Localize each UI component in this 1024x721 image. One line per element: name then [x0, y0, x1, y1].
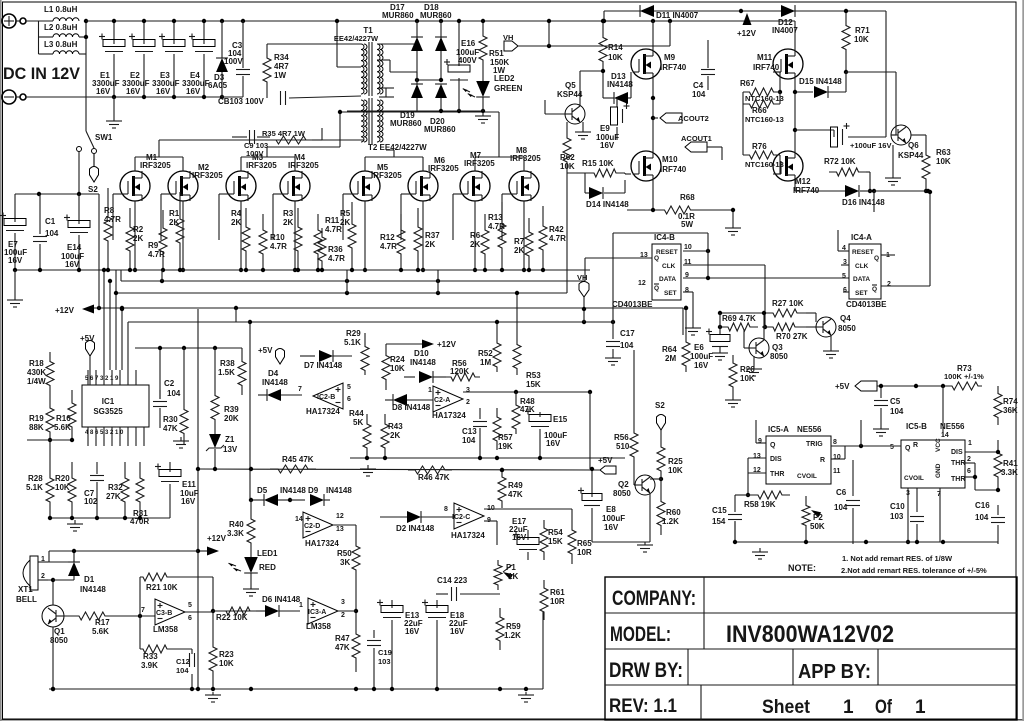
diode D12 [781, 5, 795, 17]
wire IC4-B data [683, 277, 849, 279]
svg-text:SW1: SW1 [95, 133, 113, 142]
svg-text:THR: THR [951, 460, 965, 467]
resistor R6 [481, 214, 489, 270]
svg-text:MODEL:: MODEL: [610, 623, 671, 646]
svg-text:R18: R18 [29, 359, 44, 368]
wire T cross [379, 87, 394, 89]
diode D5 [264, 494, 278, 506]
transistor M2 IRF3205 [168, 171, 198, 201]
svg-text:Z1: Z1 [225, 435, 235, 444]
svg-text:1: 1 [843, 697, 854, 718]
ground Q5 [582, 122, 584, 126]
svg-text:P1: P1 [506, 563, 516, 572]
capacitor E10 [831, 127, 838, 147]
resistor R8 [104, 188, 112, 270]
svg-text:SET: SET [855, 290, 868, 297]
svg-text:2K: 2K [470, 240, 480, 249]
svg-text:5: 5 [842, 273, 846, 280]
title block col lines [703, 577, 705, 649]
wire IC5A left [756, 442, 766, 444]
svg-text:16V: 16V [96, 87, 111, 96]
resistor R71 [845, 11, 847, 15]
svg-text:+12V: +12V [55, 306, 75, 315]
capacitor C14 [436, 593, 448, 595]
svg-text:E9: E9 [600, 124, 610, 133]
capacitor C3 [242, 21, 244, 68]
capacitor E18 [436, 600, 438, 608]
svg-text:103: 103 [378, 657, 391, 666]
svg-text:D5: D5 [257, 486, 268, 495]
svg-text:1.2K: 1.2K [504, 631, 521, 640]
svg-text:IRF3205: IRF3205 [371, 171, 402, 180]
svg-text:C13: C13 [462, 427, 477, 436]
wire R25 Q2 [660, 480, 662, 492]
svg-text:104: 104 [176, 666, 189, 675]
ground mid rail [367, 465, 369, 469]
svg-text:10: 10 [833, 454, 841, 461]
svg-text:MUR860: MUR860 [390, 119, 422, 128]
svg-text:R52: R52 [478, 349, 493, 358]
svg-text:L3 0.8uH: L3 0.8uH [44, 40, 78, 49]
wire P2 wiper [805, 535, 807, 542]
svg-text:4.7R: 4.7R [380, 242, 397, 251]
svg-text:R69 4.7K: R69 4.7K [722, 314, 756, 323]
resistor R40 [250, 500, 252, 510]
svg-text:CLK: CLK [662, 263, 676, 270]
svg-text:R32: R32 [108, 483, 123, 492]
wire +12V bus [88, 307, 683, 309]
svg-text:LED2: LED2 [494, 74, 515, 83]
wire E rail bottom [15, 269, 104, 271]
svg-text:IN4148: IN4148 [607, 80, 633, 89]
diode D2 [407, 511, 421, 523]
svg-text:D2 IN4148: D2 IN4148 [396, 524, 435, 533]
svg-text:R27 10K: R27 10K [772, 299, 804, 308]
wire drain to T2 [393, 149, 395, 151]
svg-text:10K: 10K [560, 162, 575, 171]
wire M sources [134, 201, 136, 270]
capacitor C16 [997, 505, 999, 515]
diode D8 [393, 394, 407, 406]
svg-text:R56: R56 [614, 433, 629, 442]
svg-text:VH: VH [503, 33, 513, 42]
transistor Q1 8050 [42, 605, 64, 627]
svg-text:IC2-C: IC2-C [452, 514, 470, 521]
svg-text:GND: GND [935, 463, 942, 478]
resistor R24 [382, 345, 390, 390]
svg-text:R28: R28 [28, 474, 43, 483]
svg-text:19K: 19K [498, 442, 513, 451]
svg-text:C19: C19 [378, 648, 392, 657]
resistor R4 [242, 208, 250, 270]
capacitor C9 [249, 130, 251, 144]
svg-text:120K: 120K [450, 367, 469, 376]
wire M gates [113, 193, 122, 195]
transistor M9 IRF740 [631, 49, 661, 79]
resistor R36 [318, 228, 326, 270]
svg-text:2: 2 [967, 456, 971, 463]
svg-text:R11: R11 [325, 216, 340, 225]
svg-text:2: 2 [341, 612, 345, 619]
svg-text:R54: R54 [548, 528, 563, 537]
svg-text:S2: S2 [655, 401, 665, 410]
resistor R43 [381, 414, 389, 458]
resistor R52 [493, 338, 501, 372]
capacitor E13 [391, 600, 393, 608]
svg-text:16V: 16V [450, 627, 465, 636]
svg-text:TRIG: TRIG [806, 441, 823, 448]
svg-text:R34: R34 [274, 53, 289, 62]
svg-text:1: 1 [299, 602, 303, 609]
svg-text:+5V: +5V [598, 456, 613, 465]
wire IC2A out [463, 391, 590, 393]
svg-text:LM358: LM358 [153, 625, 178, 634]
svg-text:5K: 5K [353, 418, 363, 427]
resistor R32 [121, 462, 129, 518]
capacitor E6 [710, 335, 730, 342]
ground C5 [880, 425, 882, 429]
ground bottom rail [525, 692, 527, 695]
svg-text:P2: P2 [813, 513, 823, 522]
resistor R45 [270, 465, 316, 473]
transistor M4 IRF3205 [280, 171, 310, 201]
capacitor C1 [39, 194, 41, 234]
svg-text:D14 IN4148: D14 IN4148 [586, 200, 629, 209]
svg-text:7: 7 [298, 386, 302, 393]
svg-text:R44: R44 [349, 409, 364, 418]
svg-text:R22 10K: R22 10K [216, 613, 248, 622]
svg-text:R35 4R7 1W: R35 4R7 1W [262, 129, 306, 138]
resistor R23 [209, 640, 217, 678]
ground E7 [14, 270, 16, 294]
svg-text:C6: C6 [836, 488, 847, 497]
resistor R61 [540, 580, 548, 620]
svg-text:R4: R4 [231, 209, 242, 218]
svg-text:Q: Q [872, 286, 877, 293]
net +5V oval [86, 341, 95, 357]
svg-text:IC1: IC1 [102, 397, 115, 406]
diode D17 [416, 21, 418, 38]
svg-text:E6: E6 [694, 343, 704, 352]
wire IC2C out [484, 508, 572, 510]
terminal J- (DC-) [2, 90, 16, 104]
svg-text:5W: 5W [681, 220, 693, 229]
svg-text:D1: D1 [84, 575, 95, 584]
svg-text:IN4148: IN4148 [280, 486, 306, 495]
wire bus2 [121, 280, 585, 282]
svg-text:C4: C4 [693, 81, 704, 90]
svg-text:10K: 10K [55, 483, 70, 492]
wire SW1 contact drop [78, 152, 80, 194]
svg-text:C12: C12 [176, 657, 190, 666]
svg-text:C1: C1 [45, 217, 56, 226]
svg-text:5.6K: 5.6K [54, 423, 71, 432]
resistor R17 [64, 612, 120, 620]
junction neg rail dots [112, 95, 116, 99]
svg-text:NTC160-13: NTC160-13 [745, 115, 784, 124]
ground IC1 [74, 520, 76, 524]
svg-text:+12V: +12V [207, 534, 227, 543]
svg-text:2K: 2K [231, 218, 241, 227]
resistor R63 [925, 135, 927, 143]
svg-text:15K: 15K [548, 537, 563, 546]
transistor Q4 8050 [816, 317, 836, 337]
svg-text:RESET: RESET [656, 249, 678, 256]
svg-text:R36: R36 [328, 245, 343, 254]
svg-text:10R: 10R [550, 597, 565, 606]
svg-text:4.7R: 4.7R [104, 215, 121, 224]
wire M11-M12 [794, 79, 796, 151]
svg-text:10K: 10K [854, 35, 869, 44]
wire IC5B vcc [942, 386, 944, 436]
diode D11 [640, 5, 654, 17]
resistor R2 [126, 208, 134, 270]
svg-text:27K: 27K [106, 492, 121, 501]
svg-text:R60: R60 [666, 508, 681, 517]
svg-text:16V: 16V [604, 523, 619, 532]
svg-text:4.7R: 4.7R [488, 222, 505, 231]
svg-text:R25: R25 [668, 457, 683, 466]
wire M bank drains [134, 157, 136, 171]
svg-text:R66: R66 [752, 106, 767, 115]
svg-text:D9: D9 [308, 486, 319, 495]
resistor R21 [140, 573, 170, 581]
svg-text:DATA: DATA [853, 276, 870, 283]
wire R52 tops [496, 322, 498, 338]
svg-text:8: 8 [833, 439, 837, 446]
wire bot rail right [735, 541, 998, 543]
svg-text:8050: 8050 [838, 324, 856, 333]
op-amp IC2-D [303, 512, 333, 538]
capacitor E1 [113, 21, 115, 44]
svg-text:+5V: +5V [258, 346, 273, 355]
svg-text:M12: M12 [795, 177, 811, 186]
zener Z1 [214, 430, 216, 434]
wire IC4-A clk [841, 264, 849, 266]
svg-text:1: 1 [428, 387, 432, 394]
wire IC1 top pins [87, 370, 89, 385]
ground R26 [732, 397, 734, 400]
capacitor E4 [203, 21, 205, 44]
diode D1 [73, 560, 75, 562]
svg-text:1K: 1K [508, 572, 518, 581]
svg-text:LED1: LED1 [257, 549, 278, 558]
svg-text:D6 IN4148: D6 IN4148 [262, 595, 301, 604]
svg-text:NE556: NE556 [940, 422, 965, 431]
svg-text:D8 IN4148: D8 IN4148 [392, 403, 431, 412]
transistor M3 IRF3205 [226, 171, 256, 201]
resistor R12 [397, 214, 405, 270]
resistor R48 [512, 400, 520, 434]
wire bus5 [250, 321, 613, 323]
resistor R11 [314, 214, 322, 270]
junction resistor rail dots [106, 268, 110, 272]
wire left rail mid [27, 439, 50, 441]
transistor Q2 8050 [635, 475, 655, 495]
wire IC4-B q [585, 257, 652, 259]
ground LED2 [482, 112, 484, 116]
svg-text:Q: Q [905, 445, 911, 452]
svg-text:R64: R64 [662, 345, 677, 354]
svg-text:3: 3 [466, 387, 470, 394]
svg-text:HA17324: HA17324 [305, 539, 339, 548]
svg-text:5.6K: 5.6K [92, 627, 109, 636]
potentiometer P2 [802, 496, 810, 535]
svg-text:R1: R1 [169, 209, 180, 218]
svg-text:IC4-B: IC4-B [654, 233, 675, 242]
svg-text:12: 12 [638, 280, 646, 287]
svg-text:DIS: DIS [951, 449, 963, 456]
capacitor E17 [527, 530, 529, 540]
svg-text:R: R [820, 457, 825, 464]
resistor R56b [446, 373, 480, 381]
wire XT1 net [48, 561, 74, 563]
wire R45 line [198, 469, 600, 470]
svg-text:HA17324: HA17324 [306, 407, 340, 416]
svg-text:R3: R3 [283, 209, 294, 218]
svg-text:E14: E14 [67, 243, 82, 252]
svg-text:5: 5 [890, 444, 894, 451]
resistor R69 [720, 323, 758, 331]
ground C2R30 [180, 437, 182, 441]
svg-text:100V: 100V [224, 57, 243, 66]
svg-text:400V: 400V [458, 56, 477, 65]
wire bus3 [116, 292, 567, 294]
ground bot right [759, 548, 761, 552]
svg-text:4.7R: 4.7R [270, 242, 287, 251]
svg-text:C14 223: C14 223 [437, 576, 468, 585]
junction top rail dots [112, 19, 116, 23]
svg-text:3.3K: 3.3K [227, 529, 244, 538]
svg-text:104: 104 [692, 90, 706, 99]
svg-text:430K: 430K [27, 368, 46, 377]
arrow +12V top [743, 13, 752, 25]
wire R71 bot [845, 60, 847, 72]
svg-text:R61: R61 [550, 588, 565, 597]
resistor R30 [180, 398, 188, 445]
svg-text:+12V: +12V [737, 29, 757, 38]
svg-text:4.7R: 4.7R [328, 254, 345, 263]
svg-text:IRF740: IRF740 [660, 63, 687, 72]
capacitor E7b [14, 194, 16, 222]
svg-text:5: 5 [347, 384, 351, 391]
svg-text:L1 0.8uH: L1 0.8uH [44, 5, 78, 14]
svg-text:2K: 2K [169, 218, 179, 227]
capacitor E11 [169, 462, 171, 472]
net flag ACOUT2 [653, 117, 658, 119]
resistor R47 [352, 620, 360, 672]
resistor R13 [498, 202, 506, 270]
svg-text:XT1: XT1 [18, 585, 33, 594]
wire IC4-B clk [683, 264, 765, 266]
capacitor C6 [852, 460, 854, 496]
inductor L3 [39, 53, 54, 55]
svg-text:KSP44: KSP44 [557, 90, 583, 99]
svg-text:IN4007: IN4007 [772, 26, 798, 35]
svg-text:Q5: Q5 [565, 81, 576, 90]
svg-text:SET: SET [664, 290, 677, 297]
net S2b [657, 415, 666, 431]
svg-text:EE42/4227W: EE42/4227W [334, 34, 379, 43]
svg-text:R9: R9 [148, 241, 159, 250]
resistor R27 [720, 312, 764, 314]
svg-text:2: 2 [41, 573, 45, 580]
svg-text:R5: R5 [340, 209, 351, 218]
svg-text:47K: 47K [508, 490, 523, 499]
resistor R1 [176, 192, 184, 270]
wire IC4-A q1 [881, 254, 895, 256]
LED LED2 [482, 68, 484, 82]
diode D13 [602, 71, 604, 98]
svg-text:13V: 13V [223, 445, 238, 454]
svg-text:2K: 2K [340, 218, 350, 227]
wire DC- thick [26, 96, 114, 98]
svg-text:R62: R62 [560, 153, 575, 162]
wire M9-M10 [652, 79, 654, 151]
svg-text:RED: RED [259, 563, 276, 572]
svg-text:IRF740: IRF740 [753, 63, 780, 72]
switch SW1 [86, 131, 94, 148]
svg-text:R45 47K: R45 47K [282, 455, 314, 464]
junction L right [84, 19, 88, 23]
wire neg rail [114, 96, 243, 98]
transformer T2 [364, 100, 367, 142]
speaker XT1 BELL [30, 556, 38, 590]
wire E rail top [15, 193, 99, 195]
wire IC3B out [185, 611, 213, 613]
svg-text:IN4148: IN4148 [326, 486, 352, 495]
transistor Q6 KSP44 [891, 125, 911, 145]
svg-text:D4: D4 [268, 369, 279, 378]
resistor R65 [568, 520, 576, 564]
svg-text:M9: M9 [664, 53, 676, 62]
wire bridge mid [417, 79, 441, 81]
svg-text:R46 47K: R46 47K [418, 473, 450, 482]
svg-text:R51: R51 [489, 49, 504, 58]
svg-text:7: 7 [141, 607, 145, 614]
svg-text:88K: 88K [29, 423, 44, 432]
svg-text:IRF3205: IRF3205 [464, 159, 495, 168]
svg-text:6: 6 [843, 287, 847, 294]
resistor R5 [348, 202, 356, 270]
svg-text:CVOIL: CVOIL [797, 473, 817, 480]
resistor R76 NTC [743, 151, 780, 159]
wire T1 top tap [377, 43, 417, 45]
svg-text:104: 104 [462, 436, 476, 445]
wire C17 vert [612, 233, 614, 339]
svg-text:D16 IN4148: D16 IN4148 [842, 198, 885, 207]
svg-text:16V: 16V [126, 87, 141, 96]
svg-text:1. Not add remart RES. of 1/8W: 1. Not add remart RES. of 1/8W [842, 554, 953, 563]
svg-text:R74: R74 [1003, 397, 1018, 406]
svg-text:IC2-B: IC2-B [317, 394, 335, 401]
svg-text:CVOIL: CVOIL [904, 475, 924, 482]
svg-text:102: 102 [84, 497, 98, 506]
resistor R10 [259, 214, 267, 270]
wire bottom rail [49, 688, 543, 690]
svg-text:10K: 10K [936, 157, 951, 166]
svg-text:5.1K: 5.1K [26, 483, 43, 492]
svg-text:2.Not add remart RES. toleranc: 2.Not add remart RES. tolerance of +/-5% [841, 566, 987, 575]
svg-text:1: 1 [915, 697, 926, 718]
wire 348 line [135, 347, 242, 349]
diode D19 [411, 84, 423, 98]
svg-text:MUR860: MUR860 [382, 11, 414, 20]
svg-text:10K: 10K [390, 364, 405, 373]
arrow +12V g [422, 340, 434, 349]
capacitor C7 [96, 462, 98, 474]
svg-text:R58 19K: R58 19K [744, 500, 776, 509]
